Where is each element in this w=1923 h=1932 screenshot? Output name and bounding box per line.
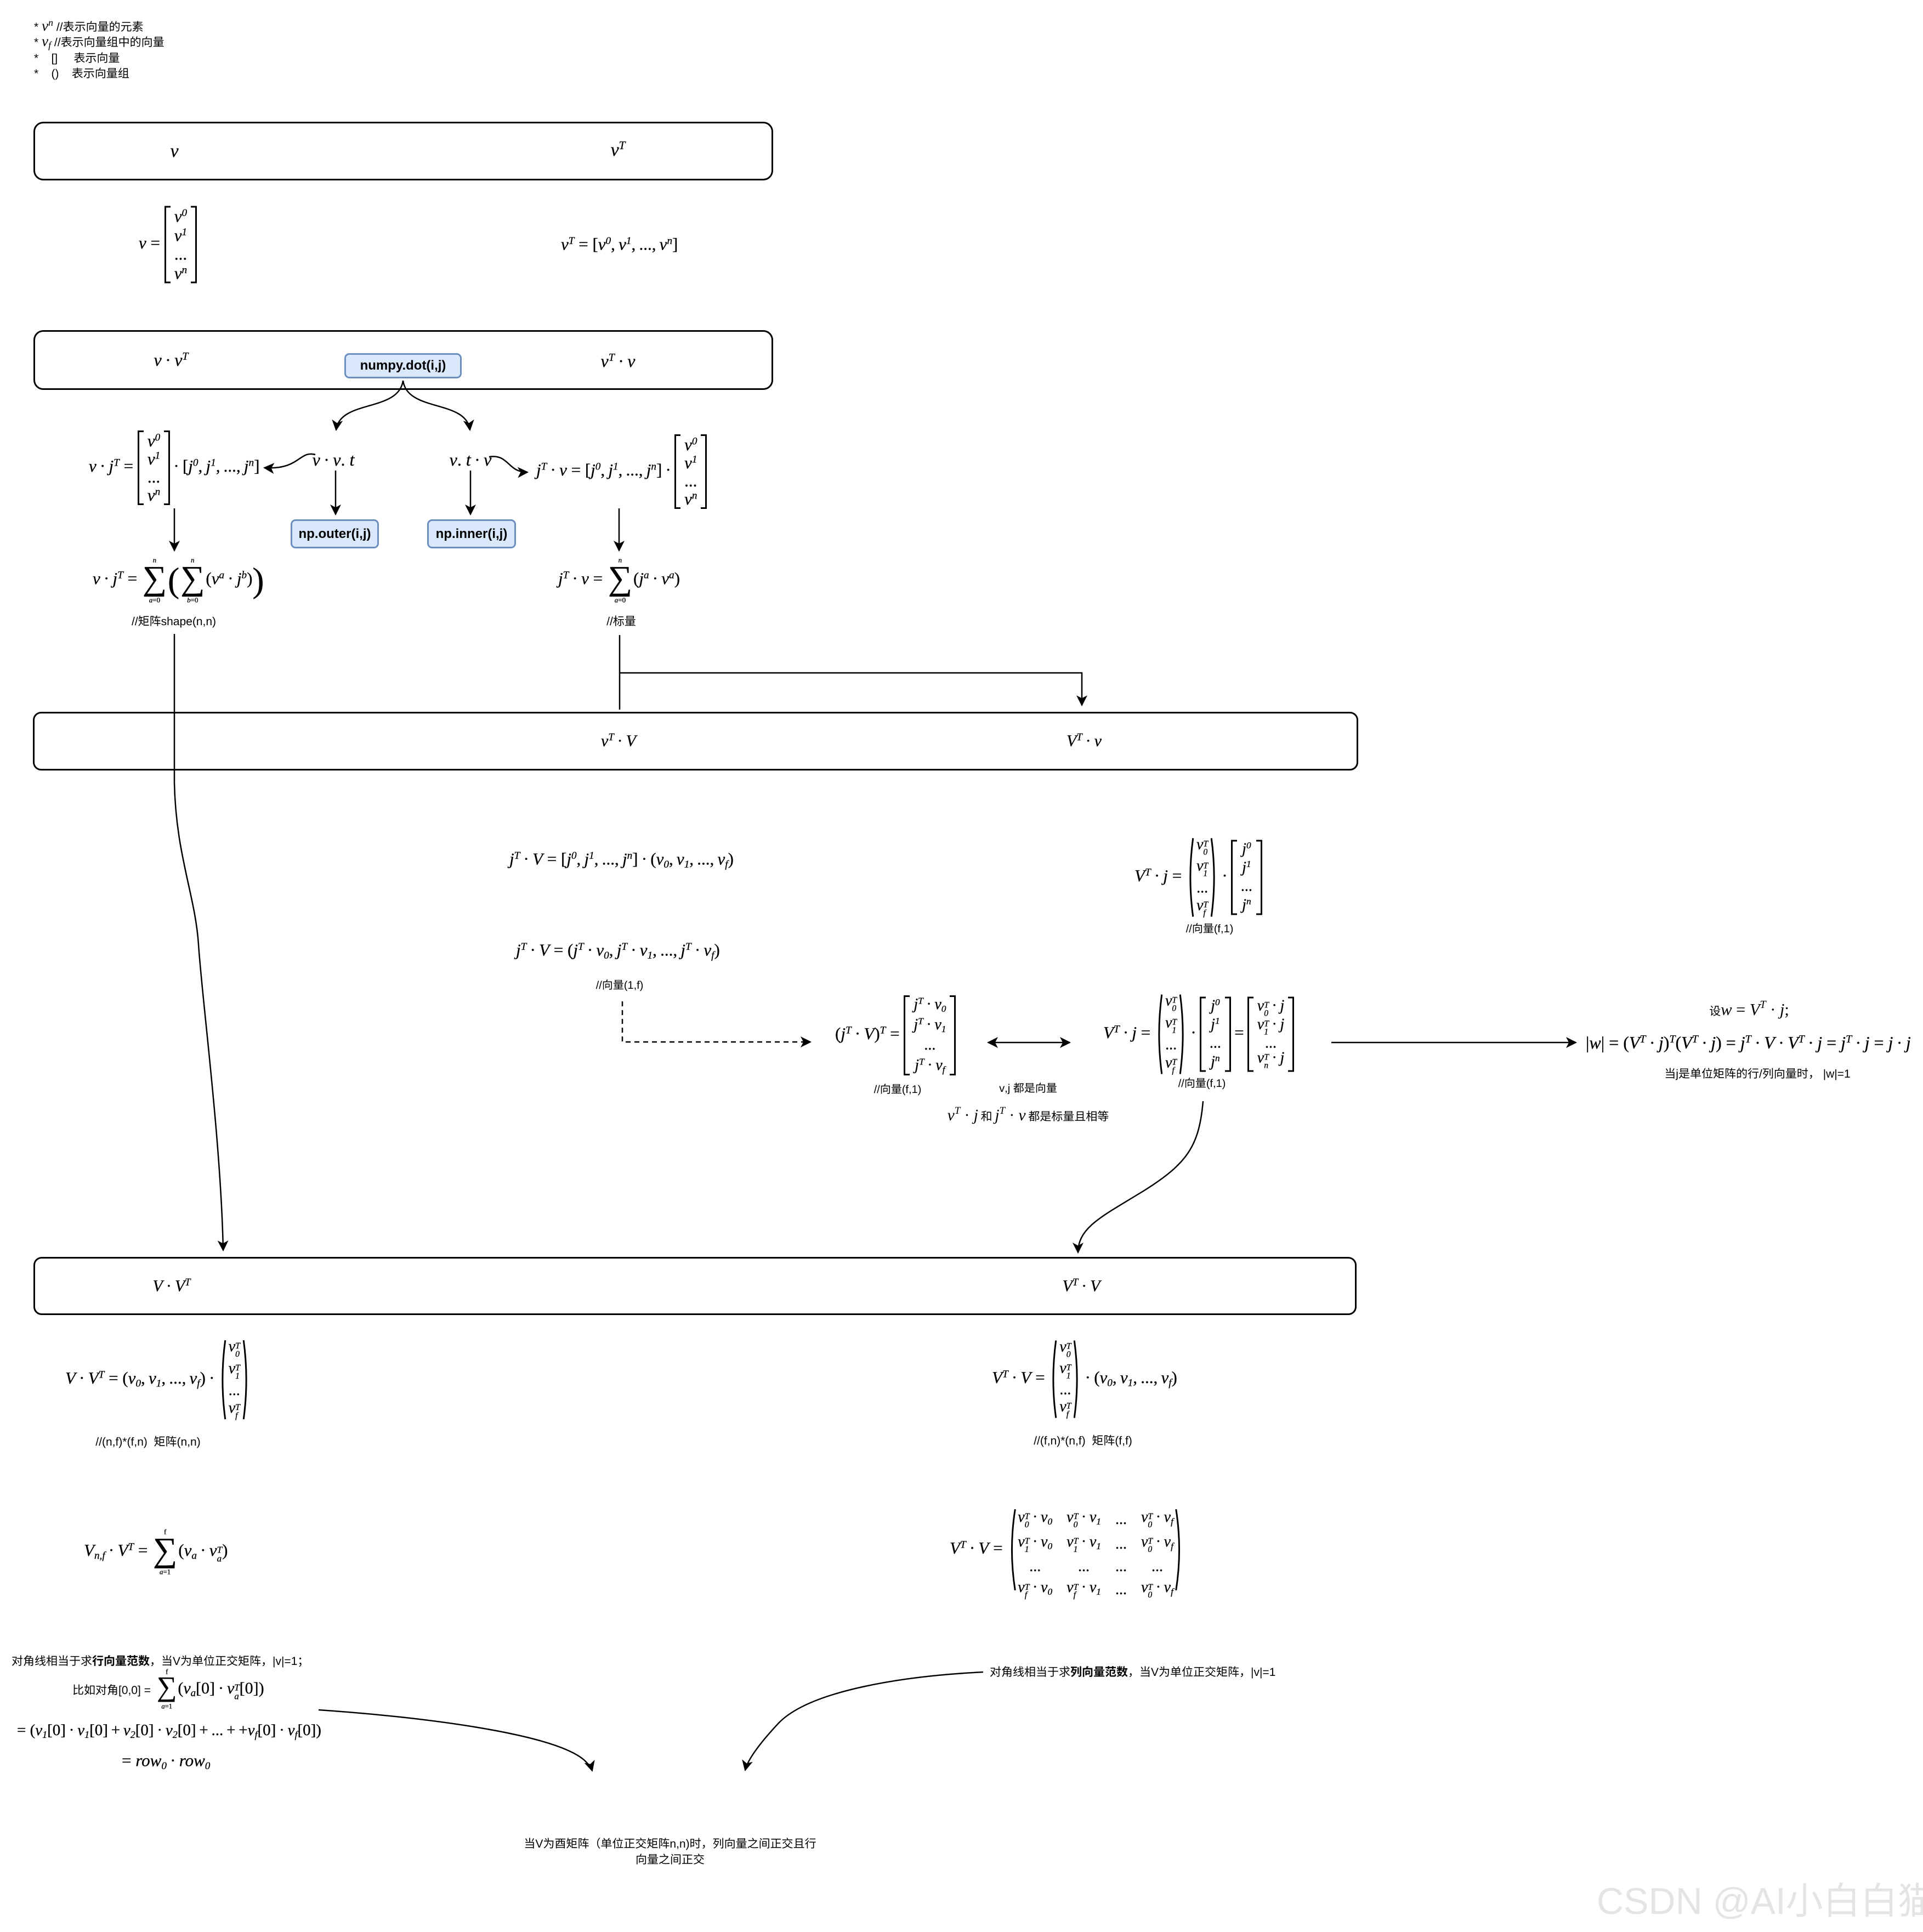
comment 标量且相等 bbox=[948, 1107, 1108, 1124]
comment v,j 都是向量 bbox=[999, 1083, 1057, 1094]
legend line3 bbox=[34, 52, 119, 64]
formula VT·V matrix bbox=[950, 1508, 1184, 1592]
formula jT·v = row · col bbox=[536, 434, 707, 509]
curve right to center bbox=[745, 1672, 983, 1770]
comment 标量 bbox=[606, 615, 636, 626]
formula VT·V expand bbox=[992, 1339, 1177, 1420]
double arrow equivalence bbox=[988, 1042, 1070, 1044]
formula |w| chain bbox=[1586, 1032, 1911, 1053]
label vT bbox=[611, 139, 626, 162]
text 当V为酉矩阵 line1 bbox=[525, 1838, 816, 1850]
label v·vT bbox=[154, 349, 189, 371]
legend line2 bbox=[34, 36, 163, 50]
connector branch to VT·v bbox=[620, 673, 1082, 705]
label V·VT bbox=[152, 1276, 190, 1296]
comment 向量(f,1) upper right bbox=[1186, 923, 1233, 934]
label VT·V bbox=[1062, 1276, 1100, 1296]
legend line4 bbox=[34, 67, 129, 80]
formula jT·V expand bbox=[509, 849, 734, 870]
arrow to v·jT formula bbox=[264, 454, 315, 468]
arrow fork left bbox=[336, 381, 403, 430]
arrow v.t·v to np.inner bbox=[470, 471, 472, 514]
formula row0·row0 bbox=[122, 1750, 210, 1772]
text 行向量范数 bbox=[12, 1655, 302, 1667]
arrow v·v.t to np.outer bbox=[335, 471, 337, 514]
comment 向量(1,f) bbox=[596, 979, 643, 991]
formula row expansion bbox=[17, 1720, 321, 1740]
arrow fork right bbox=[403, 381, 470, 430]
formula Vnf·VT sum bbox=[84, 1529, 228, 1576]
curve to VT·V box bbox=[1078, 1101, 1203, 1253]
formula jT·V products bbox=[516, 940, 720, 961]
label v.t·v bbox=[450, 449, 492, 471]
formula 设w bbox=[1710, 1001, 1788, 1019]
comment 当j是单位矩阵 bbox=[1666, 1068, 1850, 1080]
formula jT·v = sum bbox=[558, 557, 680, 604]
arrow row·col to sum formula bbox=[619, 508, 620, 551]
arrow col·row to sum formula bbox=[174, 508, 175, 551]
label v bbox=[170, 140, 178, 163]
comment 向量(f,1) right bbox=[1178, 1078, 1225, 1089]
box V·VT | VT·V bbox=[33, 1257, 1357, 1315]
watermark CSDN bbox=[1598, 1883, 1923, 1919]
connector 标量 to vT·V bbox=[619, 635, 621, 710]
label v·v.t bbox=[313, 449, 355, 471]
formula 对角 sum bbox=[156, 1669, 264, 1710]
long connector to V·VT box bbox=[174, 634, 223, 1250]
curve left to center bbox=[319, 1710, 592, 1771]
text 比如对角 bbox=[73, 1684, 150, 1696]
box v·vT | vT·v bbox=[33, 330, 773, 390]
box v / vT bbox=[33, 122, 773, 180]
formula v = col vector bbox=[139, 206, 197, 284]
dashed connector to (jT·V)T bbox=[622, 1001, 810, 1042]
legend line1 bbox=[34, 21, 143, 31]
label vT·v bbox=[601, 350, 636, 372]
blue box numpy.dot bbox=[344, 353, 462, 378]
label vT·V bbox=[601, 730, 636, 751]
comment 矩阵shape(n,n) bbox=[132, 615, 215, 627]
comment (n,f)*(f,n) bbox=[95, 1436, 200, 1448]
arrow to |w| formula bbox=[1331, 1042, 1576, 1044]
formula VT·j = col·col = col bbox=[1103, 993, 1294, 1076]
blue box np.inner bbox=[427, 519, 516, 548]
arrow to jT·v formula bbox=[489, 456, 527, 472]
formula v·jT = col · row bbox=[89, 430, 259, 505]
label VT·v bbox=[1067, 730, 1102, 751]
comment 向量(f,1) mid bbox=[874, 1084, 921, 1095]
formula (jT·V)T col bbox=[835, 995, 956, 1075]
comment (f,n)*(n,f) bbox=[1034, 1435, 1131, 1447]
text 列向量范数 bbox=[990, 1666, 1275, 1678]
formula VT·j = col·col bbox=[1134, 837, 1262, 919]
formula v·jT = double sum bbox=[93, 557, 264, 604]
text 当V为酉矩阵 line2 bbox=[637, 1854, 704, 1865]
formula vT = row vector bbox=[561, 234, 678, 256]
formula V·VT expand bbox=[65, 1339, 251, 1421]
blue box np.outer bbox=[291, 519, 379, 548]
box vT·V | VT·v bbox=[33, 712, 1358, 770]
